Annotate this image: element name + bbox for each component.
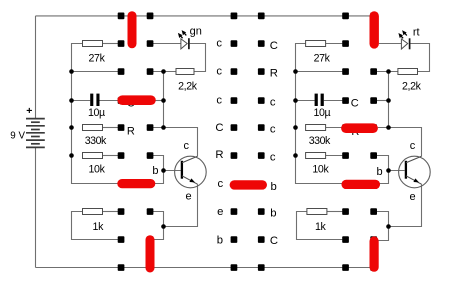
wire C2 to node [324, 100, 343, 102]
svg-text:R: R [270, 68, 278, 80]
transistor Q2 circle [399, 156, 431, 188]
wire right inner rail [296, 44, 375, 184]
resistor R6 27k right body [306, 41, 326, 47]
capacitor C2 10u right plates [315, 94, 324, 106]
breadboard strip letters left column [215, 38, 223, 247]
wire 1k right to node right [327, 211, 343, 213]
svg-text:10k: 10k [312, 164, 329, 176]
svg-text:b: b [270, 208, 276, 220]
resistor R8 330k right body [306, 125, 326, 131]
transistor Q2 emitter stroke [406, 176, 422, 184]
resistor R2 2.2k left body [176, 69, 194, 75]
resistor R9 10k right body [306, 153, 326, 159]
svg-text:c: c [270, 97, 276, 109]
wire LED D2 cathode to 2.2k [410, 44, 429, 72]
wire node row5 right corner down [375, 156, 389, 184]
wire 1k left loop [72, 212, 119, 240]
wire Q1 emitter down [164, 184, 198, 226]
wire node to mid vertical row3 right [377, 100, 389, 102]
svg-text:b: b [217, 234, 223, 246]
svg-text:1k: 1k [315, 221, 327, 233]
svg-text:rt: rt [413, 27, 420, 39]
wire Q2 emitter down [389, 184, 422, 226]
jumper J1 vertical left top [128, 16, 137, 44]
svg-text:c: c [216, 66, 222, 78]
jumper J7 horizontal right row6 [346, 180, 375, 189]
svg-text:10k: 10k [88, 164, 105, 176]
svg-text:R: R [215, 149, 223, 161]
resistor R5 1k left body [83, 209, 103, 215]
transistor Q1 base bar [181, 161, 183, 179]
svg-text:gn: gn [190, 25, 202, 37]
svg-text:b: b [152, 165, 158, 177]
wire node to LED D1 [153, 43, 181, 45]
svg-text:C: C [270, 235, 278, 247]
wire battery plus lead [35, 16, 37, 118]
wire LED D1 cathode to 2.2k [190, 44, 206, 72]
breadboard contact squares [118, 13, 377, 271]
wire node row8 corner to row9 [150, 212, 164, 240]
wire 10k right to node [326, 155, 343, 157]
wire left inner rail [72, 44, 151, 184]
LED D2 cathode bar [409, 38, 411, 49]
LED D1 arrows [179, 31, 186, 38]
wire jumper to LED D2 [379, 43, 401, 45]
resistor R3 330k left body [83, 125, 103, 131]
wire rail to node row2 right [296, 71, 343, 73]
wire bottom ground rail [36, 267, 375, 269]
transistor Q2 base bar [405, 161, 407, 179]
jumper J3 horizontal left row6 [122, 179, 151, 188]
jumper J9 vertical right bottom [370, 241, 379, 267]
transistor Q1 emitter stroke [182, 176, 198, 184]
transistor Q2 emitter arrowhead [413, 178, 419, 182]
svg-text:c: c [216, 38, 222, 50]
LED D2 arrows [399, 31, 406, 38]
wire 27k left to node [103, 43, 119, 45]
wire 1k right to node [103, 211, 119, 213]
svg-text:c: c [270, 152, 276, 164]
wire top supply rail [36, 15, 375, 17]
svg-text:c: c [184, 140, 190, 152]
wire 1k right loop [297, 212, 343, 240]
wire 27k right to node [326, 43, 343, 45]
resistor R1 27k left body [83, 41, 103, 47]
svg-text:R: R [127, 125, 135, 137]
wire right mid vertical [388, 72, 390, 128]
wire 330k to node [103, 127, 119, 129]
svg-text:2,2k: 2,2k [178, 81, 198, 93]
svg-text:+: + [26, 105, 32, 117]
svg-text:C: C [215, 122, 223, 134]
wire jumper to mid vertical row3 [150, 100, 164, 102]
wire battery minus lead [35, 148, 37, 268]
wire left mid vertical [163, 72, 165, 128]
transistor Q1 emitter arrowhead [189, 178, 195, 182]
wire node to 2.2k R7 [377, 71, 398, 73]
jumper J5 horizontal middle row6 [234, 180, 262, 189]
wire jumper to Q2 collector [378, 128, 422, 157]
wire node row5 corner to base jumper [150, 156, 164, 184]
wire Q1 base [164, 170, 181, 172]
wire node row4 to Q1 collector [153, 128, 198, 157]
battery BAT1 9V plates [26, 119, 45, 148]
wire 330k right to jumper [326, 127, 346, 129]
jumper J8 vertical right top [370, 16, 379, 44]
svg-text:330k: 330k [309, 135, 331, 147]
svg-text:330k: 330k [85, 135, 107, 147]
LED D1 cathode bar [188, 38, 190, 49]
capacitor C1 10u left plates [90, 94, 99, 106]
wire node row8 right corner to row9 [377, 212, 389, 241]
svg-text:b: b [376, 166, 382, 178]
svg-text:10µ: 10µ [88, 107, 105, 119]
svg-text:c: c [217, 178, 223, 190]
svg-text:c: c [270, 124, 276, 136]
LED D2 red triangle [401, 39, 407, 49]
wire rail to node row2 left [72, 71, 119, 73]
wire rail to capacitor C2 [296, 100, 315, 102]
transistor Q2 collector stroke [406, 156, 422, 163]
wire 10k to node [103, 155, 119, 157]
LED D1 green triangle [181, 39, 187, 49]
transistor Q1 circle [175, 156, 207, 188]
svg-text:C: C [270, 40, 278, 52]
svg-text:27k: 27k [88, 52, 105, 64]
resistor R4 10k left body [83, 153, 103, 159]
svg-text:c: c [410, 140, 416, 152]
svg-text:e: e [217, 206, 223, 218]
svg-text:c: c [216, 94, 222, 106]
svg-text:1k: 1k [93, 221, 105, 233]
svg-text:e: e [409, 191, 415, 203]
jumper J6 horizontal right row4 [346, 123, 373, 133]
svg-text:27k: 27k [314, 52, 331, 64]
svg-text:9 V: 9 V [10, 130, 25, 141]
wire node to 2.2k R2 [153, 71, 176, 73]
transistor Q1 collector stroke [182, 156, 198, 163]
wire C1 to node [100, 100, 123, 102]
svg-text:C: C [351, 98, 359, 110]
svg-text:b: b [271, 181, 277, 193]
jumper J4 vertical left bottom [146, 240, 155, 268]
breadboard strip letters right column [270, 40, 278, 247]
svg-text:e: e [186, 190, 192, 202]
wire Q2 base [389, 170, 405, 172]
wire rail to capacitor C1 [72, 100, 91, 102]
jumper J2 horizontal left row3 [122, 95, 151, 105]
svg-text:2,2k: 2,2k [402, 81, 422, 93]
resistor R7 2.2k right body [398, 69, 418, 75]
resistor R10 1k right body [307, 209, 327, 215]
svg-text:10µ: 10µ [313, 107, 330, 119]
